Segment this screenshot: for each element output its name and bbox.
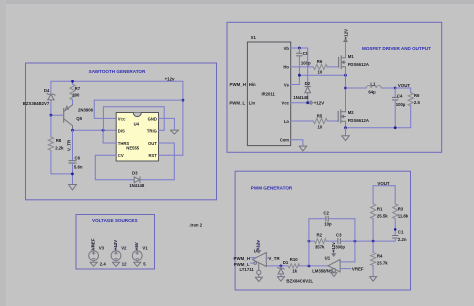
pin TRIG: [147, 129, 157, 134]
zener D1 BZX84C6V2L: [280, 266, 282, 277]
wire Vs node horizontal: [291, 75, 346, 84]
wire V_TR vertical: [72, 130, 74, 160]
resistor R6 10: [313, 64, 327, 69]
IC U4 NE555 body: [116, 113, 158, 162]
svg-text:VREF: VREF: [352, 267, 364, 272]
svg-text:PWM_H: PWM_H: [230, 82, 246, 87]
svg-text:V_TR: V_TR: [67, 139, 72, 151]
pin DIS: [118, 129, 125, 134]
title SAWTOOTH GENERATOR: [89, 69, 146, 74]
svg-text:R8: R8: [56, 138, 62, 143]
net VOUT label: [398, 83, 411, 88]
source V3 VREF 2.4: [93, 243, 95, 251]
svg-text:D3: D3: [132, 170, 138, 175]
net PWM_H label: [230, 82, 246, 87]
comparator U3 LT1711: [253, 253, 267, 267]
svg-text:1N4148: 1N4148: [129, 183, 145, 188]
svg-text:PWM_H: PWM_H: [234, 256, 250, 261]
svg-text:Q5: Q5: [76, 116, 82, 121]
svg-text:+12V: +12V: [343, 29, 348, 39]
box: PWM GENERATOR region: [235, 171, 410, 290]
svg-text:R6: R6: [317, 59, 323, 64]
svg-text:+12V: +12V: [314, 100, 324, 105]
ground at Com: [299, 146, 307, 151]
wire +12v top rail: [51, 80, 183, 82]
resistor R4 23.7k: [372, 241, 374, 276]
svg-text:U1: U1: [325, 256, 331, 261]
title VOLTAGE SOURCES: [92, 218, 138, 223]
svg-text:GND: GND: [148, 117, 157, 122]
net VREF label: [352, 267, 364, 272]
svg-text:100p: 100p: [301, 60, 311, 65]
node Vb/C5 junction: [298, 47, 301, 50]
svg-text:OUT: OUT: [148, 141, 157, 146]
svg-text:X1: X1: [251, 35, 257, 40]
wire Ho to gate: [291, 66, 339, 68]
inductor L1 64u: [346, 87, 396, 89]
svg-text:2N3906: 2N3906: [78, 108, 94, 113]
transistor Q5 2N3906: [63, 108, 65, 122]
svg-text:23.7k: 23.7k: [377, 261, 388, 266]
svg-text:25.5k: 25.5k: [377, 213, 388, 218]
svg-text:2.5: 2.5: [414, 100, 421, 105]
svg-text:10: 10: [318, 125, 323, 130]
svg-text:D1: D1: [283, 260, 289, 265]
svg-text:VOLTAGE SOURCES: VOLTAGE SOURCES: [92, 218, 138, 223]
svg-text:Vb: Vb: [284, 46, 290, 51]
net V_TR label: [67, 139, 72, 151]
pin Lin: [249, 100, 256, 105]
capacitor C4 100u: [394, 88, 396, 128]
svg-text:PWM GENERATOR: PWM GENERATOR: [251, 186, 293, 191]
IC X1 IR2011 body: [247, 42, 290, 146]
svg-text:C4: C4: [397, 93, 403, 98]
svg-text:M2: M2: [348, 110, 355, 115]
svg-text:LT1711: LT1711: [240, 267, 255, 272]
svg-text:D4: D4: [44, 88, 50, 93]
wire VOUT to load: [346, 88, 411, 128]
wire Vb: [291, 47, 308, 49]
ground below C6: [68, 185, 76, 190]
wire U1 noninverting to VREF: [340, 268, 351, 270]
svg-text:+12v: +12v: [165, 77, 175, 82]
power +12v flag at U1: [333, 250, 335, 254]
wire CV to D3: [95, 155, 134, 180]
wire node A to U1 inverting input: [340, 241, 355, 262]
svg-text:R1: R1: [377, 206, 383, 211]
svg-text:V1: V1: [142, 245, 148, 250]
svg-text:Vcc: Vcc: [282, 101, 290, 106]
pin Ho: [283, 64, 289, 69]
svg-text:MOSFET DRIVER AND OUTPUT: MOSFET DRIVER AND OUTPUT: [362, 46, 431, 51]
U3 V- pin to ground: [255, 263, 262, 282]
svg-text:IR2011: IR2011: [262, 92, 276, 97]
pin Vcc: [118, 117, 126, 122]
svg-text:R2: R2: [317, 233, 323, 238]
svg-text:12: 12: [122, 262, 127, 267]
node +12v junction: [182, 99, 185, 102]
svg-text:NE555: NE555: [126, 146, 139, 151]
resistor R8 2.2k: [51, 115, 73, 174]
node M2 source junction: [344, 126, 347, 129]
svg-text:2.2n: 2.2n: [398, 237, 407, 242]
wire Lo to M2 gate: [291, 120, 339, 122]
transistor M1 FDS6612A: [339, 56, 342, 69]
svg-text:11.8k: 11.8k: [398, 213, 409, 218]
pin Vcc: [282, 101, 290, 106]
zener D4: [50, 81, 52, 115]
directive .tran 2: [189, 223, 203, 228]
svg-text:Lo: Lo: [284, 119, 290, 124]
svg-text:C2: C2: [323, 211, 329, 216]
ground below R4: [370, 277, 377, 282]
pin GND: [148, 117, 157, 122]
source V2 +12V 12: [115, 243, 117, 251]
svg-text:L1: L1: [370, 81, 376, 86]
resistor R1 25.5k: [372, 186, 374, 241]
svg-text:FDS6612A: FDS6612A: [348, 62, 369, 67]
pin OUT: [148, 141, 157, 146]
net +12V label: [314, 100, 324, 105]
net +12v label: [165, 77, 175, 82]
svg-text:100µ: 100µ: [396, 102, 406, 107]
svg-text:VREF: VREF: [91, 238, 96, 250]
wire error amp output: [266, 265, 328, 267]
svg-text:R6: R6: [414, 93, 420, 98]
wire OUT to D3: [141, 143, 174, 180]
source V1 +5V 5: [136, 243, 138, 251]
resistor R6 2.5 load: [408, 93, 413, 106]
box: VOLTAGE SOURCES region: [76, 215, 155, 270]
svg-text:BZX84C6V2L: BZX84C6V2L: [286, 278, 313, 283]
pin Lo: [284, 119, 290, 124]
svg-text:Lin: Lin: [249, 100, 256, 105]
svg-text:Vs: Vs: [284, 82, 290, 87]
pin Hin: [249, 82, 256, 87]
title PWM GENERATOR: [251, 186, 293, 191]
svg-text:C3: C3: [336, 233, 342, 238]
wire THRS link: [103, 130, 116, 143]
power +12v flag at U3: [258, 241, 260, 251]
svg-text:V_TR: V_TR: [268, 256, 280, 261]
node VOUT junction: [394, 87, 397, 90]
wire M1 source to M2 drain: [345, 75, 347, 112]
svg-text:BZX384B2V7: BZX384B2V7: [23, 101, 50, 106]
pin THRS: [118, 141, 130, 146]
svg-text:R3: R3: [398, 206, 404, 211]
svg-text:.tran 2: .tran 2: [189, 223, 203, 228]
wire GND to ground: [159, 118, 175, 129]
svg-text:FDS6612A: FDS6612A: [348, 118, 369, 123]
svg-text:2.4: 2.4: [100, 262, 107, 267]
svg-text:V2: V2: [121, 245, 127, 250]
net PWM_L label: [229, 100, 245, 105]
pin RST: [149, 153, 158, 158]
svg-text:64µ: 64µ: [368, 90, 376, 95]
op-amp U1 LM358/NS: [328, 260, 340, 272]
ground below D1: [277, 277, 284, 282]
pin CV: [118, 153, 124, 158]
diode D2 1N4148: [307, 48, 309, 103]
svg-text:U4: U4: [134, 122, 140, 127]
wire Vcc feed: [94, 100, 183, 118]
svg-text:Ho: Ho: [283, 64, 289, 69]
node collector/cap junction: [71, 129, 104, 132]
svg-text:300p: 300p: [335, 244, 345, 249]
wire +12v vertical to RST: [182, 81, 184, 155]
pin Vb: [284, 46, 290, 51]
pin Vs: [284, 82, 290, 87]
diode D3 1N4148: [134, 177, 140, 183]
svg-text:+12v: +12v: [256, 240, 261, 250]
wire TRIG loop over top: [103, 107, 164, 131]
svg-text:V3: V3: [99, 245, 105, 250]
svg-text:VOUT: VOUT: [398, 83, 411, 88]
svg-text:PWM_L: PWM_L: [229, 100, 245, 105]
ground below M2: [345, 128, 347, 136]
svg-text:R7: R7: [75, 86, 81, 91]
svg-text:1k: 1k: [292, 268, 297, 273]
svg-text:+12V: +12V: [113, 240, 118, 250]
svg-text:Com: Com: [280, 138, 290, 143]
wire DIS node: [73, 129, 117, 131]
svg-text:LM358/NS: LM358/NS: [312, 269, 333, 274]
svg-text:M1: M1: [348, 54, 355, 59]
svg-text:+12v: +12v: [331, 242, 336, 252]
ground near U4: [170, 130, 178, 134]
svg-text:SAWTOOTH GENERATOR: SAWTOOTH GENERATOR: [89, 69, 146, 74]
svg-text:C6: C6: [75, 155, 81, 160]
wire VOUT top: [373, 185, 395, 187]
resistor R2 357k: [314, 239, 326, 244]
capacitor C2 10p feedback: [309, 219, 355, 241]
svg-text:5.6n: 5.6n: [74, 164, 83, 169]
svg-text:PWM_L: PWM_L: [234, 262, 250, 267]
svg-text:R4: R4: [377, 254, 383, 259]
net PWM_H output label: [250, 257, 256, 259]
title MOSFET DRIVER AND OUTPUT: [362, 46, 431, 51]
wire node A horizontal: [309, 240, 395, 242]
svg-text:10p: 10p: [324, 222, 332, 227]
wire RST to +12v: [159, 154, 183, 156]
resistor R10 1k: [288, 264, 299, 268]
svg-text:R10: R10: [290, 257, 298, 262]
svg-text:RST: RST: [149, 153, 158, 158]
svg-text:TRIG: TRIG: [147, 129, 157, 134]
capacitor C5 100p: [298, 48, 300, 75]
capacitor C6 5.6n: [69, 161, 76, 163]
svg-text:R5: R5: [317, 113, 323, 118]
svg-text:357k: 357k: [315, 244, 325, 249]
pin Com: [280, 138, 290, 143]
svg-text:1N4148: 1N4148: [293, 95, 309, 100]
svg-text:200: 200: [72, 93, 80, 98]
net PWM_L output label: [250, 262, 253, 264]
net V_TR input label: [266, 257, 268, 259]
svg-text:Hin: Hin: [249, 82, 256, 87]
box: MOSFET DRIVER AND OUTPUT region: [227, 22, 442, 152]
svg-text:C1: C1: [398, 229, 404, 234]
wire Com to ground: [291, 140, 303, 146]
resistor R5 10: [313, 118, 327, 123]
wire C2 leg to output: [308, 241, 310, 266]
box: SAWTOOTH GENERATOR region: [26, 63, 217, 200]
svg-text:10: 10: [318, 69, 323, 74]
svg-text:VOUT: VOUT: [377, 181, 390, 186]
svg-text:CV: CV: [118, 153, 124, 158]
net VOUT label top: [377, 181, 390, 186]
U1 V- pin to ground: [331, 268, 337, 276]
svg-text:DIS: DIS: [118, 129, 125, 134]
svg-text:+5V: +5V: [134, 242, 139, 250]
capacitor C3 300p: [338, 239, 341, 244]
capacitor C1 2.2n: [394, 228, 397, 231]
resistor R7 200: [70, 84, 75, 100]
node cap/R8 ground junction: [71, 173, 74, 176]
svg-text:D2: D2: [305, 81, 311, 86]
svg-text:2.2k: 2.2k: [55, 145, 64, 150]
net +12V flag at M1 drain: [344, 39, 347, 41]
resistor R3 11.8k: [394, 186, 396, 236]
transistor M2 FDS6612A: [338, 110, 341, 123]
svg-text:VCC: VCC: [118, 117, 126, 122]
wire Vcc to +12V: [291, 102, 311, 104]
